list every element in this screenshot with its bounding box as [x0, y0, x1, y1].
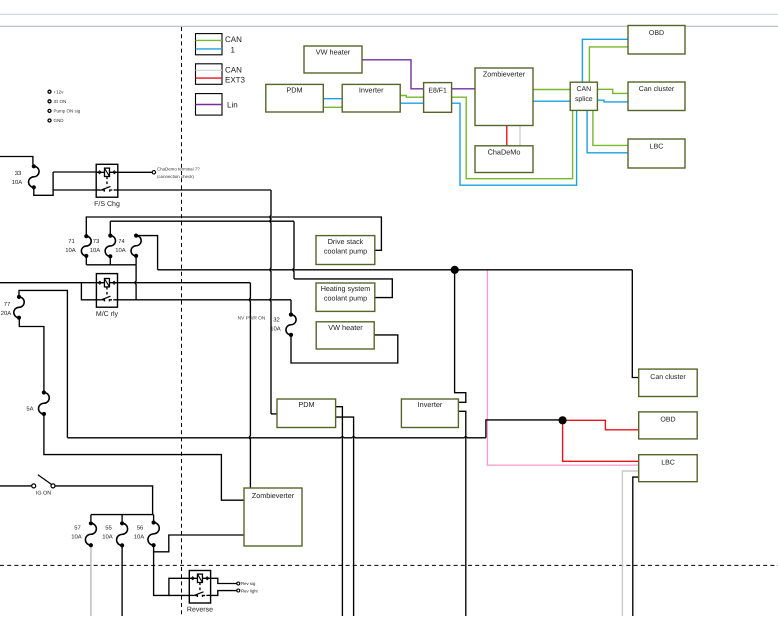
svg-text:PDM: PDM — [298, 400, 314, 409]
svg-text:Reverse: Reverse — [187, 607, 213, 614]
svg-text:F/S Chg: F/S Chg — [94, 200, 120, 208]
svg-text:Rev sig: Rev sig — [241, 581, 256, 586]
svg-text:10A: 10A — [115, 247, 126, 254]
svg-text:VW heater: VW heater — [328, 323, 363, 332]
svg-text:Inverter: Inverter — [359, 86, 384, 95]
svg-text:OBD: OBD — [649, 30, 664, 37]
svg-text:56: 56 — [137, 525, 144, 532]
svg-text:33: 33 — [15, 170, 22, 177]
svg-text:NV PWR ON: NV PWR ON — [238, 316, 266, 322]
svg-text:IG ON: IG ON — [36, 491, 51, 497]
svg-text:coolant pump: coolant pump — [324, 247, 367, 256]
svg-text:IG ON: IG ON — [54, 99, 67, 104]
svg-text:+12v: +12v — [54, 89, 65, 94]
svg-text:Heating system: Heating system — [321, 284, 371, 293]
svg-text:Can cluster: Can cluster — [650, 373, 686, 381]
svg-text:ChaDemo terminal 7?: ChaDemo terminal 7? — [157, 166, 200, 171]
svg-text:71: 71 — [68, 238, 75, 245]
svg-text:OBD: OBD — [660, 417, 675, 424]
svg-text:10A: 10A — [134, 534, 145, 541]
svg-text:32: 32 — [273, 317, 280, 324]
svg-text:57: 57 — [74, 525, 81, 532]
svg-text:Inverter: Inverter — [418, 400, 443, 409]
svg-text:74: 74 — [118, 238, 125, 245]
svg-text:PDM: PDM — [286, 86, 302, 95]
svg-text:LBC: LBC — [650, 144, 664, 151]
svg-text:CAN: CAN — [225, 35, 242, 44]
svg-text:Pump ON sig: Pump ON sig — [54, 109, 81, 114]
svg-text:ChaDeMo: ChaDeMo — [488, 148, 521, 157]
svg-text:10A: 10A — [270, 326, 281, 333]
svg-text:73: 73 — [93, 238, 100, 245]
svg-text:LBC: LBC — [661, 460, 675, 467]
svg-text:10A: 10A — [102, 534, 113, 541]
svg-text:Rev light: Rev light — [241, 589, 259, 594]
svg-text:10A: 10A — [65, 247, 76, 254]
svg-text:GND: GND — [54, 118, 65, 123]
svg-text:EXT3: EXT3 — [225, 75, 246, 84]
svg-text:CAN: CAN — [225, 65, 242, 74]
svg-text:Lin: Lin — [227, 100, 238, 109]
svg-text:55: 55 — [105, 525, 112, 532]
svg-text:E8/F1: E8/F1 — [428, 87, 447, 94]
svg-text:(connection check): (connection check) — [157, 174, 194, 179]
svg-text:Zombieverter: Zombieverter — [252, 491, 295, 500]
svg-text:coolant pump: coolant pump — [324, 294, 367, 303]
svg-text:10A: 10A — [12, 179, 23, 186]
svg-text:10A: 10A — [90, 247, 101, 254]
svg-text:M/C rly: M/C rly — [96, 310, 119, 318]
svg-text:Can cluster: Can cluster — [639, 85, 675, 93]
svg-text:77: 77 — [4, 301, 11, 308]
svg-text:Zombieverter: Zombieverter — [483, 70, 526, 79]
svg-text:20A: 20A — [1, 310, 12, 317]
svg-text:1: 1 — [231, 45, 236, 54]
svg-text:VW heater: VW heater — [316, 48, 351, 57]
svg-text:Drive stack: Drive stack — [328, 237, 364, 246]
svg-text:splice: splice — [575, 96, 593, 103]
svg-text:10A: 10A — [71, 534, 82, 541]
svg-text:CAN: CAN — [577, 86, 592, 93]
svg-text:5A: 5A — [26, 406, 33, 413]
